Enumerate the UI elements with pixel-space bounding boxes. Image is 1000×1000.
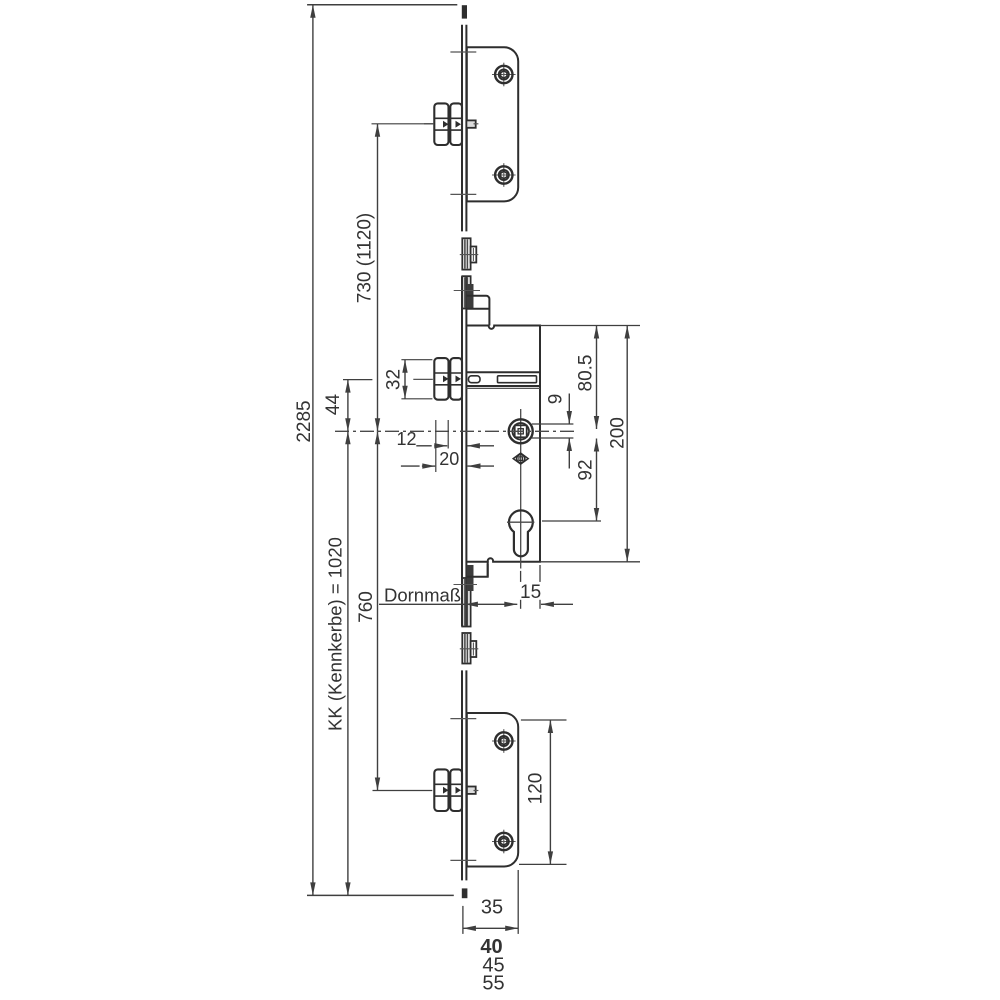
locking pin P2 body <box>471 641 477 657</box>
alignment tick at bottom plate upper edge <box>450 718 476 720</box>
screw S2 on top plate <box>492 163 516 187</box>
dimension 92 <box>576 439 600 522</box>
svg-text:55: 55 <box>482 973 504 995</box>
dimension 760 <box>356 431 432 790</box>
extension lines for 9 at hub <box>532 424 574 438</box>
bracket below case <box>467 561 488 577</box>
svg-text:35: 35 <box>481 897 503 919</box>
fixing hole below hub <box>513 453 528 464</box>
top reference line <box>307 4 457 6</box>
svg-text:32: 32 <box>384 369 405 390</box>
drive rod striped segment upper-2 <box>462 276 470 308</box>
hub vertical centreline <box>520 409 522 569</box>
dimension 200 case height <box>608 326 630 562</box>
faceplate bottom end tick <box>462 888 468 898</box>
dimension 9 <box>546 394 573 469</box>
rod centre tick above case <box>454 290 480 292</box>
dimension 12 <box>396 429 494 449</box>
cylinder axis extension line to right <box>542 520 601 522</box>
svg-text:9: 9 <box>546 394 567 405</box>
handle hub / follower <box>509 419 533 443</box>
svg-text:92: 92 <box>576 459 597 480</box>
svg-text:200: 200 <box>608 417 629 449</box>
svg-text:80.5: 80.5 <box>576 355 597 392</box>
svg-text:2285: 2285 <box>294 400 315 442</box>
cam centre ticks (top) <box>424 123 478 125</box>
euro profile cylinder hole <box>507 510 534 556</box>
faceplate rail segment 1 <box>462 25 466 232</box>
dimension 32 cam height <box>384 360 433 399</box>
dimension 35 faceplate width <box>463 870 518 934</box>
extension tick b <box>447 420 449 449</box>
svg-text:760: 760 <box>356 591 377 623</box>
case top extension line to right <box>540 325 640 327</box>
mushroom cam bottom locking point <box>434 769 462 811</box>
bottom striker plate <box>467 713 518 867</box>
lock case outline <box>467 326 540 562</box>
cam centre tick (bottom) <box>474 790 479 792</box>
drive rod striped segment lower-2 (with pin) <box>462 633 470 664</box>
cam pin through faceplate (top) <box>466 120 475 127</box>
case bottom extension line to right <box>540 561 640 563</box>
pin P1 centre tick <box>460 254 479 256</box>
svg-text:120: 120 <box>526 773 547 805</box>
svg-text:730 (1120): 730 (1120) <box>355 213 376 304</box>
extension tick a <box>435 420 437 472</box>
bottom reference line <box>307 894 454 896</box>
dimension KK (Kennkerbe) = 1020 <box>325 431 351 895</box>
mushroom cam at central lock <box>434 358 462 400</box>
alignment tick at top plate lower edge <box>450 193 476 195</box>
rod centre tick below case <box>454 584 478 586</box>
dimension 20 <box>401 449 494 469</box>
svg-text:Dornmaß: Dornmaß <box>384 585 461 606</box>
alignment tick at bottom plate lower edge <box>450 859 476 861</box>
dark rod below case <box>467 565 474 591</box>
top striker plate <box>467 47 518 201</box>
dimension line Dornmass (backset) <box>379 602 517 607</box>
latch slot right <box>498 376 537 383</box>
drive rod striped segment lower-1 <box>462 578 470 627</box>
alignment tick at top plate upper edge <box>450 51 476 53</box>
cam centre tick (central) <box>413 378 433 380</box>
svg-text:KK (Kennkerbe) = 1020: KK (Kennkerbe) = 1020 <box>325 537 346 731</box>
dimension 44 <box>323 380 372 432</box>
svg-text:44: 44 <box>323 394 344 416</box>
dimension 2285 overall length <box>294 5 316 896</box>
dimension 730 (1120) <box>355 124 434 432</box>
screw S1 on top plate <box>492 63 516 87</box>
faceplate top end tick <box>462 5 467 18</box>
dimension 120 plate height <box>519 720 567 864</box>
pin P2 centre tick <box>460 648 479 650</box>
main horizontal centreline (dash-dot) <box>335 430 576 432</box>
svg-text:15: 15 <box>520 582 541 603</box>
latch slot left <box>469 376 481 383</box>
locking pin P1 body <box>471 247 477 263</box>
latch band across case <box>466 372 540 388</box>
screw S3 on bottom plate <box>492 729 516 753</box>
bracket above case <box>466 296 489 326</box>
cam pin through faceplate (bottom) <box>466 787 475 794</box>
dimension 15 <box>520 565 573 609</box>
mushroom cam top locking point <box>434 103 462 145</box>
drive rod striped segment upper-1 (with pin) <box>462 238 470 269</box>
screw S4 on bottom plate <box>492 830 516 854</box>
dimension 80.5 <box>576 326 600 430</box>
faceplate rail segment 3 <box>462 670 466 880</box>
svg-text:20: 20 <box>439 449 459 469</box>
faceplate rail segment 2 <box>462 276 466 626</box>
dark rod above case <box>467 284 474 309</box>
svg-text:12: 12 <box>396 429 416 449</box>
